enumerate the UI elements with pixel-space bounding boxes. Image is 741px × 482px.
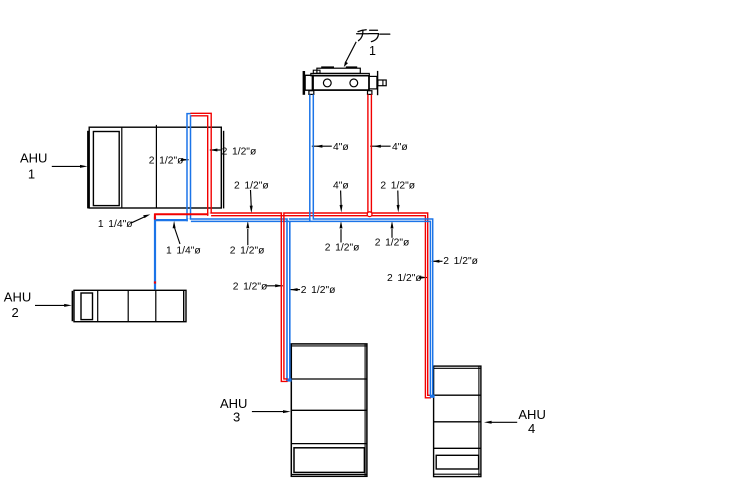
svg-text:2 1/2"ø: 2 1/2"ø [301, 285, 336, 296]
svg-text:1 1/4"ø: 1 1/4"ø [166, 246, 201, 257]
svg-text:2 1/2"ø: 2 1/2"ø [375, 238, 410, 249]
svg-text:1: 1 [369, 44, 376, 58]
svg-text:2 1/2"ø: 2 1/2"ø [443, 256, 478, 267]
svg-text:2 1/2"ø: 2 1/2"ø [149, 155, 184, 166]
svg-text:4: 4 [528, 421, 535, 436]
svg-text:2 1/2"ø: 2 1/2"ø [233, 282, 268, 293]
svg-text:3: 3 [233, 410, 240, 425]
svg-text:AHU: AHU [20, 151, 47, 166]
svg-text:2: 2 [12, 305, 19, 320]
svg-text:2 1/2"ø: 2 1/2"ø [230, 245, 265, 256]
svg-text:AHU: AHU [518, 407, 545, 422]
svg-text:2 1/2"ø: 2 1/2"ø [234, 180, 269, 191]
svg-text:2 1/2"ø: 2 1/2"ø [222, 146, 257, 157]
svg-text:AHU: AHU [4, 290, 31, 305]
svg-text:1: 1 [28, 167, 35, 182]
svg-text:2 1/2"ø: 2 1/2"ø [387, 273, 422, 284]
svg-text:2 1/2"ø: 2 1/2"ø [380, 180, 415, 191]
svg-text:4"ø: 4"ø [392, 142, 408, 153]
svg-text:4"ø: 4"ø [333, 180, 349, 191]
svg-text:4"ø: 4"ø [333, 142, 349, 153]
svg-text:1 1/4"ø: 1 1/4"ø [98, 219, 133, 230]
svg-text:2 1/2"ø: 2 1/2"ø [325, 242, 360, 253]
